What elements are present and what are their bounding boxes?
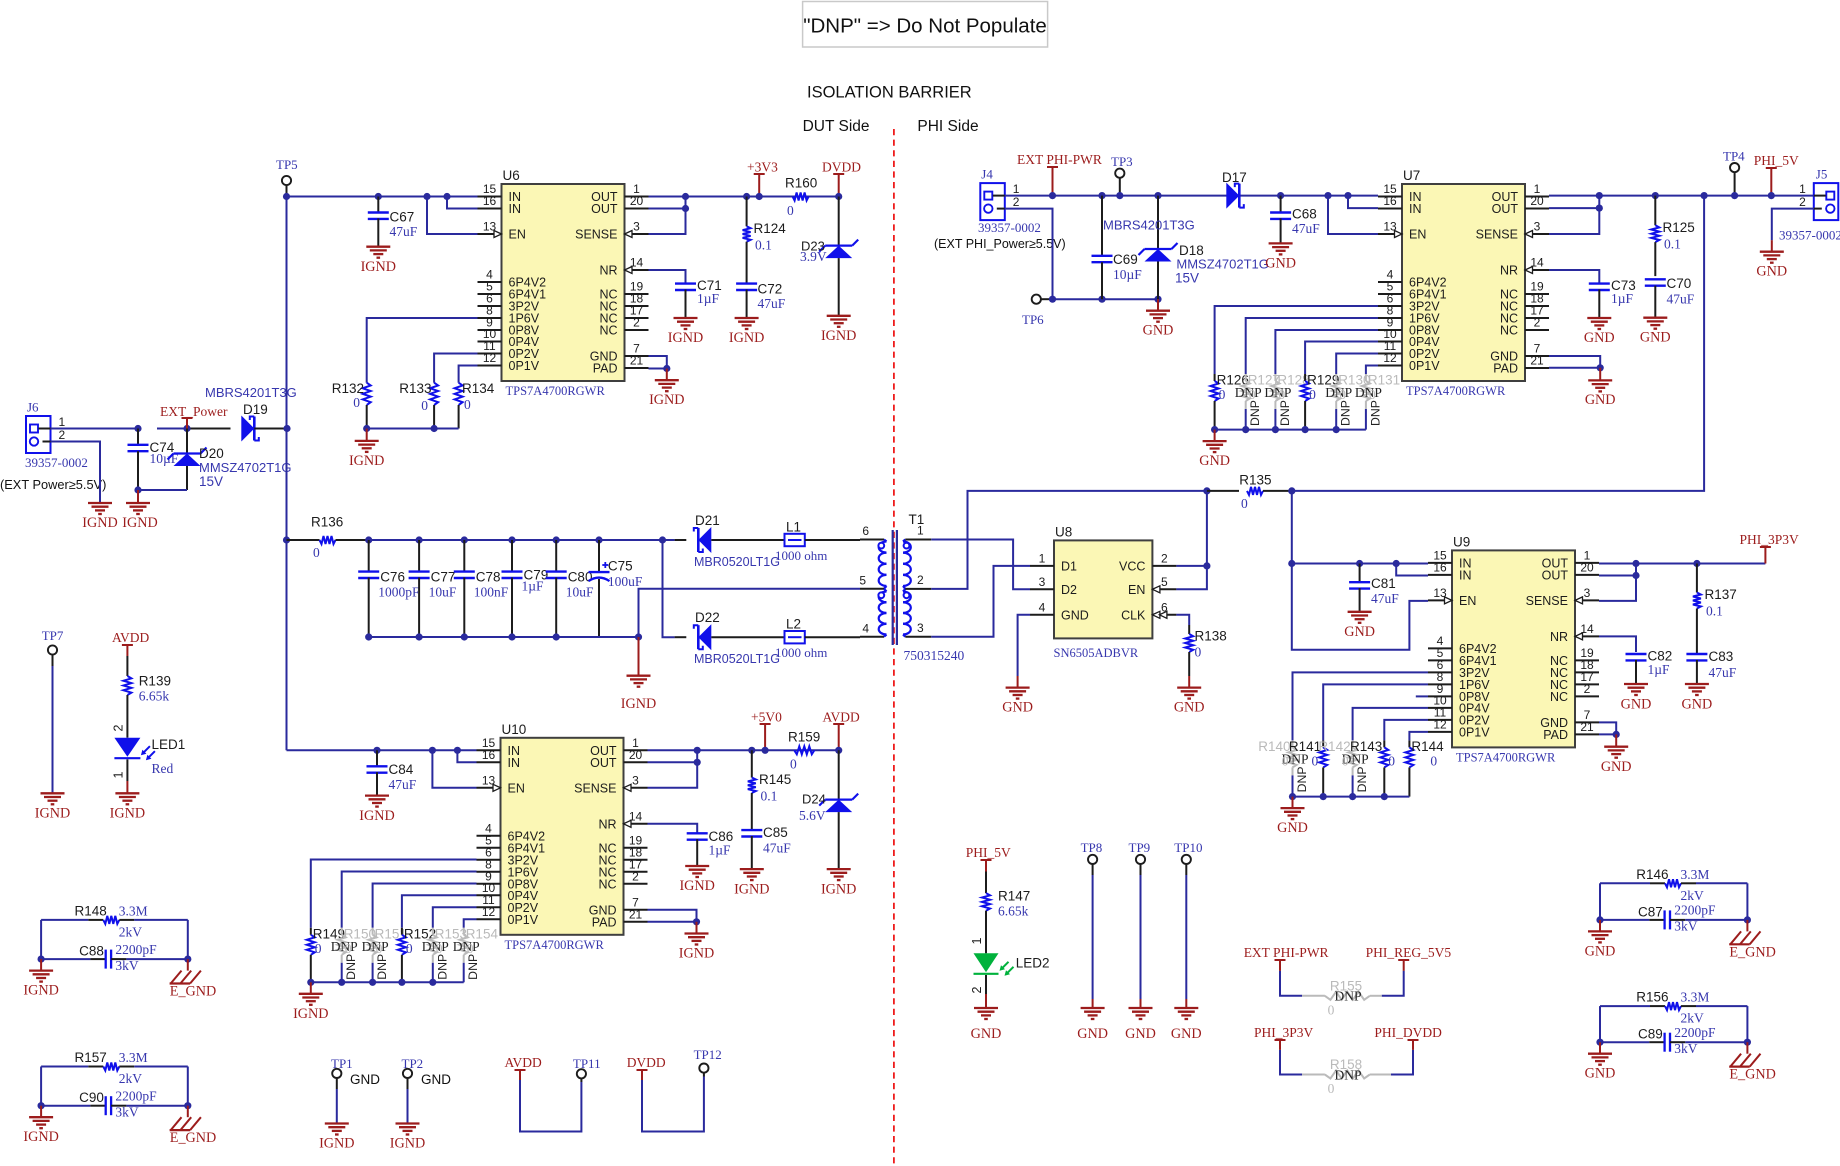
svg-text:C67: C67	[390, 210, 415, 225]
svg-text:C89: C89	[1638, 1027, 1663, 1042]
ground GND at U8	[1002, 688, 1033, 716]
svg-text:0: 0	[313, 545, 320, 560]
test point TP10	[1174, 840, 1202, 1008]
capacitor C77 10uF	[409, 536, 457, 640]
svg-text:Red: Red	[152, 761, 174, 776]
ground GND at LED2	[971, 1008, 1002, 1042]
svg-text:EN: EN	[1409, 228, 1426, 242]
svg-text:1: 1	[1799, 182, 1806, 196]
regulator IC U8 SN6505ADBVR	[1030, 524, 1176, 660]
svg-text:TP7: TP7	[42, 628, 64, 643]
svg-text:16: 16	[482, 748, 496, 762]
ground GND left	[1585, 1054, 1616, 1082]
svg-text:0.1: 0.1	[1664, 237, 1681, 252]
svg-text:D22: D22	[695, 610, 720, 625]
wire R157 left vertical	[38, 1067, 45, 1118]
resistor R141 0	[1289, 684, 1428, 796]
led LED1 Red	[112, 724, 186, 793]
resistor R129 0	[1301, 342, 1378, 430]
ground GND at TP8	[1077, 1008, 1108, 1042]
svg-text:0: 0	[1388, 753, 1395, 768]
net label AVDD led	[112, 630, 150, 676]
svg-text:E_GND: E_GND	[170, 984, 217, 1000]
svg-text:IGND: IGND	[110, 806, 145, 822]
ground GND at resistor group	[1277, 808, 1308, 836]
ground GND at resistor group	[1199, 441, 1230, 469]
resistor R127 DNP	[1235, 318, 1378, 430]
svg-text:GND: GND	[1585, 1066, 1616, 1082]
svg-text:16: 16	[1383, 194, 1397, 208]
resistor R125 0.1	[1651, 192, 1694, 276]
svg-text:0.1: 0.1	[761, 789, 778, 804]
resistor R148 3.3M 2kV	[41, 903, 188, 939]
ground IGND at U6 PAD	[649, 380, 684, 408]
svg-text:C83: C83	[1709, 649, 1734, 664]
ground E_GND right	[1729, 931, 1776, 960]
wire R157 right vertical	[184, 1067, 191, 1118]
svg-text:GND: GND	[1171, 1026, 1202, 1042]
wire TP6 ground rail	[1049, 296, 1162, 303]
svg-text:TPS7A4700RGWR: TPS7A4700RGWR	[1406, 384, 1506, 398]
svg-text:GND: GND	[1174, 700, 1205, 716]
wire U9 NR to C82	[1599, 636, 1636, 652]
svg-text:0: 0	[467, 941, 474, 956]
svg-text:3.3M: 3.3M	[1681, 867, 1710, 882]
svg-text:NR: NR	[598, 817, 616, 831]
wire T1 pin2 to VCC rail	[931, 491, 1207, 589]
resistor R132 0	[332, 318, 478, 429]
junction D19 output	[283, 425, 290, 432]
test point TP8	[1081, 840, 1103, 1008]
svg-text:21: 21	[1580, 720, 1594, 734]
connector J4	[934, 167, 1066, 251]
svg-text:10µF: 10µF	[1113, 267, 1142, 282]
svg-text:0: 0	[353, 395, 360, 410]
svg-text:2: 2	[1013, 195, 1020, 209]
ground GND at C82	[1621, 684, 1652, 713]
net label +3V3	[747, 160, 778, 201]
svg-text:1: 1	[59, 415, 66, 429]
ground IGND at C67	[361, 247, 396, 275]
ground GND left	[1585, 931, 1616, 959]
svg-text:5: 5	[859, 574, 866, 588]
wire J5 pin2 to ground	[1772, 209, 1814, 252]
svg-text:T1: T1	[909, 512, 925, 527]
svg-text:47uF: 47uF	[390, 224, 418, 239]
resistor R147 6.65k	[982, 889, 1030, 954]
test point TP6	[1022, 295, 1053, 327]
svg-text:10uF: 10uF	[429, 585, 457, 600]
svg-text:GND: GND	[1143, 323, 1174, 339]
svg-text:39357-0002: 39357-0002	[978, 220, 1041, 235]
capacitor C72 47uF	[736, 282, 786, 319]
isolation barrier dashed line	[893, 129, 895, 1166]
svg-text:R141: R141	[1289, 739, 1321, 754]
wire T1 pin5 center tap	[639, 589, 861, 637]
svg-text:0: 0	[1328, 1081, 1335, 1096]
svg-text:TP11: TP11	[573, 1056, 601, 1071]
svg-text:39357-0002: 39357-0002	[25, 455, 88, 470]
svg-text:C88: C88	[79, 944, 104, 959]
ground IGND at D24	[821, 869, 856, 897]
svg-text:U8: U8	[1055, 524, 1072, 539]
svg-text:47uF: 47uF	[763, 841, 791, 856]
svg-text:0: 0	[1282, 753, 1289, 768]
svg-text:PHI_5V: PHI_5V	[966, 845, 1011, 860]
svg-text:2: 2	[917, 573, 924, 587]
ground GND at J5	[1756, 252, 1787, 280]
svg-text:EXT PHI-PWR: EXT PHI-PWR	[1244, 945, 1329, 960]
svg-text:GND: GND	[1585, 392, 1616, 408]
diode D17 MBRS4201T3G	[1103, 170, 1247, 233]
svg-text:TP4: TP4	[1723, 149, 1745, 164]
svg-text:0: 0	[345, 941, 352, 956]
svg-text:2: 2	[970, 986, 984, 993]
resistor R146 3.3M 2kV	[1600, 867, 1747, 903]
svg-text:J5: J5	[1816, 167, 1828, 182]
net label DVDD top	[822, 160, 861, 201]
wire U7 GND PAD	[1549, 356, 1604, 380]
svg-text:SENSE: SENSE	[1526, 594, 1568, 608]
net label PHI_3P3V out	[1740, 532, 1800, 564]
svg-text:0: 0	[787, 203, 794, 218]
svg-text:PHI Side: PHI Side	[917, 118, 978, 135]
svg-text:0: 0	[1241, 496, 1248, 511]
resistor R155 DNP	[1302, 978, 1382, 1017]
inductor L1 1000 ohm ferrite	[775, 520, 860, 564]
svg-text:NC: NC	[1500, 324, 1518, 338]
svg-text:TP3: TP3	[1111, 154, 1133, 169]
resistor R158 DNP	[1302, 1057, 1391, 1096]
svg-text:(EXT PHI_Power≥5.5V): (EXT PHI_Power≥5.5V)	[934, 237, 1066, 251]
svg-text:L1: L1	[786, 520, 801, 535]
resistor R140 DNP	[1258, 672, 1428, 796]
resistor R130 DNP	[1325, 354, 1378, 430]
test point TP11	[573, 1056, 601, 1078]
svg-text:ISOLATION BARRIER: ISOLATION BARRIER	[807, 84, 972, 102]
svg-text:12: 12	[482, 905, 496, 919]
svg-text:OUT: OUT	[591, 202, 618, 216]
test point TP1	[331, 1056, 380, 1124]
svg-text:MMSZ4702T1G: MMSZ4702T1G	[1176, 257, 1268, 272]
svg-text:NC: NC	[1550, 690, 1568, 704]
svg-text:SENSE: SENSE	[574, 781, 616, 795]
svg-text:DNP: DNP	[344, 954, 358, 980]
wire C74 D20 bottom	[138, 489, 187, 491]
svg-text:NR: NR	[1500, 264, 1518, 278]
ground IGND at U10 PAD	[679, 934, 714, 962]
svg-text:EXT PHI-PWR: EXT PHI-PWR	[1017, 152, 1102, 167]
svg-text:39357-0002: 39357-0002	[1779, 228, 1840, 243]
svg-text:1: 1	[970, 937, 984, 944]
svg-text:U9: U9	[1453, 534, 1470, 549]
svg-text:IGND: IGND	[821, 882, 856, 898]
svg-text:3.9V: 3.9V	[800, 249, 827, 264]
svg-text:R157: R157	[75, 1050, 107, 1065]
svg-text:DNP: DNP	[466, 954, 480, 980]
capacitor C79 1uF	[502, 536, 549, 640]
svg-text:16: 16	[483, 194, 497, 208]
junction U6 EN drop	[423, 193, 430, 200]
svg-text:0: 0	[406, 941, 413, 956]
resistor R131 DNP	[1355, 366, 1400, 430]
svg-text:IGND: IGND	[649, 392, 684, 408]
capacitor C84 47uF	[367, 747, 417, 796]
wire R135 to U7 output rail	[1288, 197, 1704, 495]
svg-text:R146: R146	[1636, 867, 1668, 882]
wire R135 junction to U9 IN	[1288, 491, 1428, 576]
ground E_GND right	[1729, 1054, 1776, 1083]
svg-text:OUT: OUT	[1492, 202, 1519, 216]
svg-text:EXT_Power: EXT_Power	[160, 404, 228, 419]
svg-text:PHI_3P3V: PHI_3P3V	[1740, 532, 1800, 547]
svg-text:0: 0	[1309, 387, 1316, 402]
regulator IC U7 TPS7A4700RGWR	[1378, 168, 1549, 398]
svg-text:DVDD: DVDD	[822, 160, 861, 175]
wire R148 left vertical	[38, 920, 45, 971]
wire U9 EN loop	[1292, 564, 1428, 650]
net label PHI_5V led	[966, 845, 1011, 893]
svg-text:EN: EN	[509, 228, 526, 242]
svg-text:2: 2	[1799, 195, 1806, 209]
svg-text:2: 2	[1584, 682, 1591, 696]
svg-text:PAD: PAD	[1543, 728, 1568, 742]
svg-text:2200pF: 2200pF	[115, 942, 157, 957]
svg-text:2: 2	[633, 316, 640, 330]
svg-text:EN: EN	[1459, 594, 1476, 608]
net label DVDD test bracket	[627, 1055, 704, 1132]
main DUT vertical wire	[286, 197, 288, 751]
svg-text:VCC: VCC	[1119, 559, 1145, 573]
svg-text:C76: C76	[380, 570, 405, 585]
svg-text:D24: D24	[802, 792, 826, 807]
svg-text:750315240: 750315240	[904, 648, 965, 663]
svg-text:R135: R135	[1239, 473, 1271, 488]
ground GND at C83	[1682, 684, 1713, 713]
svg-text:GND: GND	[1199, 453, 1230, 469]
svg-text:20: 20	[1530, 194, 1544, 208]
svg-text:R132: R132	[332, 381, 364, 396]
svg-text:0: 0	[1195, 645, 1202, 660]
svg-text:NR: NR	[1550, 630, 1568, 644]
svg-text:1µF: 1µF	[1648, 662, 1671, 677]
svg-text:NC: NC	[599, 324, 617, 338]
svg-text:MBR0520LT1G: MBR0520LT1G	[694, 652, 780, 666]
svg-text:C75: C75	[608, 559, 633, 574]
capacitor C76 1000pF	[358, 536, 420, 640]
svg-text:2kV: 2kV	[1681, 1011, 1705, 1026]
svg-text:47uF: 47uF	[758, 296, 786, 311]
svg-text:47uF: 47uF	[1709, 665, 1737, 680]
svg-text:GND: GND	[971, 1026, 1002, 1042]
svg-text:SENSE: SENSE	[575, 228, 617, 242]
svg-text:GND: GND	[1584, 330, 1615, 346]
svg-text:AVDD: AVDD	[112, 630, 150, 645]
capacitor C74 10uF	[128, 429, 179, 491]
svg-text:GND: GND	[421, 1072, 451, 1087]
svg-text:C81: C81	[1371, 576, 1396, 591]
svg-text:C68: C68	[1292, 207, 1317, 222]
regulator IC U6 TPS7A4700RGWR	[478, 168, 649, 398]
svg-text:2: 2	[632, 869, 639, 883]
svg-text:U6: U6	[503, 168, 520, 183]
resistor R135 0	[1207, 473, 1292, 512]
svg-text:6.65k: 6.65k	[139, 689, 170, 704]
svg-text:TP10: TP10	[1174, 840, 1202, 855]
svg-text:D21: D21	[695, 513, 720, 528]
ground GND at C73	[1584, 318, 1615, 346]
svg-text:IGND: IGND	[390, 1136, 425, 1152]
label PHI Side	[917, 118, 978, 135]
svg-text:TP9: TP9	[1129, 840, 1151, 855]
svg-text:R133: R133	[399, 381, 431, 396]
regulator IC U9 TPS7A4700RGWR	[1428, 534, 1599, 764]
ground IGND at R132	[349, 441, 384, 469]
ground IGND at J6	[82, 503, 117, 531]
svg-text:0: 0	[464, 397, 471, 412]
svg-text:2200pF: 2200pF	[1674, 1025, 1716, 1040]
junction U6 sense loop top	[682, 193, 689, 200]
ground IGND at TP7	[35, 793, 70, 821]
svg-text:0P1V: 0P1V	[1459, 725, 1490, 739]
svg-text:47uF: 47uF	[389, 777, 417, 792]
svg-text:DNP: DNP	[1334, 989, 1361, 1004]
svg-text:IGND: IGND	[23, 983, 58, 999]
wire R148 right vertical	[184, 920, 191, 971]
connector J5	[1779, 167, 1840, 243]
svg-text:0: 0	[421, 398, 428, 413]
junction U9 sense loop	[1632, 560, 1639, 579]
svg-text:J4: J4	[981, 167, 993, 182]
svg-text:IGND: IGND	[122, 515, 157, 531]
wire U6 OUT rail	[649, 197, 839, 235]
svg-text:R144: R144	[1411, 739, 1444, 754]
svg-text:1µF: 1µF	[522, 579, 545, 594]
svg-text:IN: IN	[1409, 202, 1422, 216]
svg-text:U10: U10	[502, 722, 527, 737]
junction U10 IN2 drop	[454, 747, 461, 754]
svg-text:D1: D1	[1061, 559, 1077, 573]
net label AVDD right	[823, 710, 861, 754]
svg-text:OUT: OUT	[590, 756, 617, 770]
svg-text:DNP: DNP	[1334, 1067, 1361, 1082]
svg-text:"DNP" => Do Not Populate: "DNP" => Do Not Populate	[803, 15, 1047, 38]
svg-text:AVDD: AVDD	[823, 710, 861, 725]
svg-text:IGND: IGND	[734, 882, 769, 898]
resistor R152 0	[398, 895, 477, 982]
wire caps ground rail	[369, 633, 642, 675]
test point TP5	[276, 157, 298, 197]
svg-text:0: 0	[1339, 387, 1346, 402]
svg-text:1: 1	[1013, 182, 1020, 196]
ground GND at U9 PAD	[1601, 747, 1632, 775]
capacitor C90 2200pF 3kV	[41, 1089, 188, 1120]
wire T1 pin1 to D2	[931, 540, 1030, 590]
svg-text:0: 0	[1311, 753, 1318, 768]
svg-text:DNP: DNP	[435, 954, 449, 980]
test point TP7	[42, 628, 64, 793]
ground E_GND right	[170, 1117, 217, 1146]
svg-text:R137: R137	[1705, 587, 1737, 602]
zener D24 5.6V	[799, 750, 858, 869]
svg-text:1000 ohm: 1000 ohm	[775, 548, 827, 563]
ground IGND at C86	[679, 866, 714, 894]
svg-text:3: 3	[1039, 575, 1046, 589]
svg-text:0P1V: 0P1V	[1409, 359, 1440, 373]
svg-text:3kV: 3kV	[115, 1105, 138, 1120]
ground GND at D18 rail	[1143, 299, 1174, 338]
svg-text:R125: R125	[1663, 220, 1695, 235]
svg-text:R124: R124	[754, 221, 787, 236]
svg-text:0: 0	[315, 941, 322, 956]
wire R156 right vertical	[1744, 1006, 1751, 1054]
svg-text:2: 2	[1161, 551, 1168, 565]
wire U10 OUT rail	[648, 750, 839, 788]
svg-text:D17: D17	[1222, 170, 1247, 185]
ground E_GND right	[170, 971, 217, 1000]
svg-text:21: 21	[1530, 354, 1544, 368]
svg-text:TPS7A4700RGWR: TPS7A4700RGWR	[1456, 750, 1556, 764]
svg-text:PHI_5V: PHI_5V	[1754, 153, 1799, 168]
resistor R134 0	[455, 366, 495, 429]
svg-text:12: 12	[1433, 717, 1447, 731]
junction U6 IN2 drop	[443, 193, 450, 200]
resistor R156 3.3M 2kV	[1600, 990, 1747, 1026]
label ISOLATION BARRIER	[807, 84, 972, 102]
capacitor C69 10uF	[1092, 192, 1143, 299]
svg-text:0: 0	[1328, 1002, 1335, 1017]
ground GND at C70	[1640, 318, 1671, 346]
wire resistor group rail	[307, 979, 464, 994]
svg-text:PAD: PAD	[593, 362, 618, 376]
svg-text:TP2: TP2	[402, 1056, 424, 1071]
svg-text:R159: R159	[788, 730, 820, 745]
capacitor C85 47uF	[741, 825, 791, 869]
diode D21 MBR0520LT1G	[663, 513, 785, 569]
svg-text:1000 ohm: 1000 ohm	[775, 645, 827, 660]
svg-text:IGND: IGND	[319, 1136, 354, 1152]
resistor R153 DNP	[422, 907, 477, 982]
svg-text:DUT Side: DUT Side	[803, 118, 870, 135]
capacitor C89 2200pF 3kV	[1600, 1025, 1747, 1056]
svg-text:R148: R148	[75, 903, 107, 918]
resistor R136 0	[287, 515, 369, 561]
svg-text:R143: R143	[1350, 739, 1382, 754]
zener D23 3.9V	[800, 197, 858, 316]
connector J6	[0, 400, 106, 493]
svg-text:C70: C70	[1667, 276, 1692, 291]
svg-text:IGND: IGND	[668, 330, 703, 346]
transformer T1 750315240	[859, 512, 964, 663]
junction TP5 rail	[283, 193, 290, 200]
svg-text:20: 20	[629, 748, 643, 762]
regulator IC U10 TPS7A4700RGWR	[477, 722, 648, 952]
svg-text:2kV: 2kV	[119, 924, 143, 939]
ground GND at C81	[1344, 612, 1375, 640]
svg-text:DNP: DNP	[1248, 400, 1262, 426]
svg-text:47uF: 47uF	[1292, 221, 1320, 236]
wire U10 NR to C86	[648, 824, 698, 833]
svg-text:TP8: TP8	[1081, 840, 1103, 855]
resistor R149 0	[307, 860, 477, 983]
svg-text:EN: EN	[1128, 583, 1145, 597]
svg-text:GND: GND	[350, 1072, 380, 1087]
net label EXT PHI-PWR bridge	[1244, 945, 1329, 996]
ground IGND at C71	[668, 318, 703, 346]
svg-text:1µF: 1µF	[697, 291, 720, 306]
svg-text:LED2: LED2	[1016, 956, 1050, 971]
resistor R139 6.65k	[123, 674, 171, 738]
